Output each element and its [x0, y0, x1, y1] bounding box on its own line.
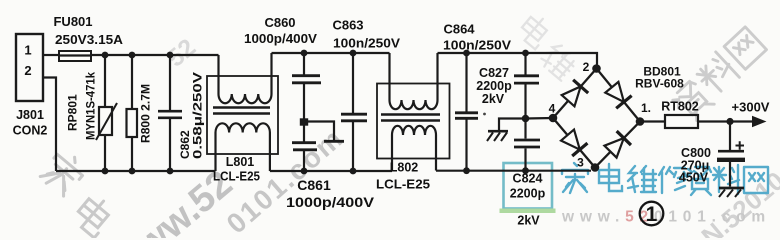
svg-text:www.520101.com: www.520101.com [561, 209, 771, 226]
node junction C863 top [350, 50, 357, 57]
watermark cyan char wei [628, 166, 656, 192]
wire bottom rail L802 to bridge [436, 170, 591, 172]
node junction C861 bottom [301, 168, 308, 175]
wire midpoint to bridge pin 4 [526, 117, 554, 120]
svg-text:450V: 450V [679, 171, 709, 185]
watermark cyan char liao [713, 165, 739, 194]
choke L801 bottom winding [216, 123, 270, 171]
diode D2 arm 2-1 [604, 81, 632, 108]
svg-text:1000p/400V: 1000p/400V [286, 194, 375, 210]
svg-text:3: 3 [577, 156, 584, 170]
choke L801 core [213, 108, 270, 114]
svg-text:100n/250V: 100n/250V [443, 38, 511, 53]
watermark cyan char jia [562, 163, 588, 193]
node junction C824 bottom [522, 167, 529, 174]
wire top rail L802 to bridge [438, 53, 598, 65]
watermark gray char wang topright [724, 27, 766, 69]
svg-text:2200p: 2200p [476, 79, 512, 93]
wire live line after fuse [91, 54, 219, 56]
wire pin1 to fuse [43, 54, 59, 56]
svg-text:LCL-E25: LCL-E25 [213, 170, 260, 184]
svg-text:RT802: RT802 [661, 100, 699, 114]
svg-text:1.: 1. [641, 101, 651, 115]
svg-text:C824: C824 [513, 172, 543, 186]
wire bottom rail L801 to L802 [270, 170, 392, 172]
watermark cyan char zi [687, 167, 711, 195]
svg-text:C864: C864 [443, 22, 475, 37]
svg-text:LCL-E25: LCL-E25 [376, 178, 430, 192]
ink speck [483, 113, 486, 116]
capacitor C861 [292, 143, 317, 171]
arrow +300V output [752, 116, 767, 127]
watermark gray char dian left [72, 193, 116, 238]
ground chassis C800 [719, 188, 744, 197]
svg-text:L802: L802 [390, 161, 419, 175]
watermark cyan char wang [744, 167, 768, 193]
diode D4 arm 3-1 [603, 131, 631, 159]
svg-text:1000p/400V: 1000p/400V [244, 31, 317, 46]
node bridge pin 4 [549, 114, 558, 123]
choke L801 box [207, 76, 278, 154]
watermark gray char liao topright [694, 51, 741, 98]
wire pin2 to neutral [43, 78, 56, 172]
node junction RP801 bottom [102, 168, 109, 175]
node junction RP801 top [102, 52, 109, 59]
svg-text:2: 2 [24, 63, 31, 78]
svg-text:0.58μ/250V: 0.58μ/250V [191, 72, 205, 159]
node junction C827 top [522, 50, 529, 57]
wire stub from node A [304, 122, 334, 141]
svg-text:RBV-608: RBV-608 [635, 77, 684, 91]
fuse FU801 [59, 51, 91, 61]
node junction C862 top [167, 52, 174, 59]
choke L802 core [381, 115, 440, 121]
capacitor C800 [717, 122, 745, 187]
wire bottom neutral rail left [56, 170, 216, 172]
thermistor RT802 [665, 115, 698, 128]
choke L801 top winding [219, 53, 272, 103]
node bridge pin 1 [636, 117, 645, 126]
node junction Y-cap midpoint [522, 115, 530, 123]
watermark gray char zi topright [670, 80, 714, 124]
node bridge pin 3 [591, 163, 600, 172]
watermark gray char dian topmid [517, 12, 554, 49]
svg-text:2kV: 2kV [517, 214, 540, 228]
ground chassis earth [487, 131, 508, 141]
choke L802 bottom winding [392, 126, 436, 171]
svg-text:CON2: CON2 [13, 124, 48, 138]
wire RT802 to +300V [698, 120, 753, 122]
stub plate [324, 140, 344, 143]
node junction C800 top [726, 118, 733, 125]
node junction C862 bottom [167, 168, 174, 175]
diode D1 arm 4-2 [561, 80, 589, 107]
watermark cyan char dian [599, 164, 622, 191]
bridge BD801 arms [553, 69, 640, 168]
capacitor C827 [514, 53, 539, 119]
capacitor C864 [455, 53, 478, 171]
node junction C860 top [301, 50, 308, 57]
svg-text:C860: C860 [264, 15, 295, 30]
watermark teal highlight box C824 [504, 163, 553, 209]
svg-text:MYN1S-471k: MYN1S-471k [84, 72, 98, 140]
varistor RP801 [96, 55, 117, 171]
svg-text:1: 1 [646, 203, 658, 226]
svg-text:J801: J801 [16, 108, 44, 122]
watermark cyan char xiu [659, 167, 686, 193]
svg-text:R800 2.7M: R800 2.7M [139, 84, 153, 143]
node A midpoint C860 C861 [300, 118, 308, 125]
capacitor C860 [292, 53, 321, 142]
connector J801 [16, 34, 43, 101]
svg-text:2200p: 2200p [510, 187, 546, 201]
svg-text:250V3.15A: 250V3.15A [55, 32, 124, 47]
resistor R800 [127, 55, 138, 171]
node junction R800 top [129, 52, 136, 59]
wire top rail L801 to L802 [272, 52, 390, 54]
svg-text:100n/250V: 100n/250V [333, 36, 400, 51]
svg-text:1: 1 [24, 43, 31, 58]
svg-text:+300V: +300V [732, 100, 770, 115]
svg-text:RP801: RP801 [66, 94, 80, 131]
watermark gray char jia left [38, 147, 88, 197]
svg-text:C827: C827 [479, 66, 509, 80]
choke L802 top winding [390, 53, 438, 109]
svg-text:FU801: FU801 [53, 14, 92, 29]
watermark green underline [500, 209, 556, 214]
svg-text:C861: C861 [297, 177, 331, 193]
node junction C864 top [463, 50, 470, 57]
choke L802 box [377, 84, 450, 159]
svg-text:4: 4 [549, 102, 556, 116]
svg-text:2kV: 2kV [482, 92, 505, 106]
svg-text:L801: L801 [226, 155, 255, 169]
svg-text:C863: C863 [332, 18, 363, 33]
capacitor C862 [158, 55, 182, 171]
watermark gray char wei topmid [539, 41, 579, 81]
node junction R800 bottom [129, 168, 136, 175]
wire to chassis earth [499, 119, 526, 131]
node junction C863 bottom [350, 168, 357, 175]
node bridge pin 2 [592, 64, 601, 73]
diode D3 arm 4-3 [560, 129, 588, 156]
svg-text:2: 2 [583, 60, 590, 74]
node junction C864 bottom [463, 167, 470, 174]
circled 1 page marker [640, 202, 664, 226]
capacitor C863 [341, 53, 367, 171]
wire bridge pin1 to RT802 [640, 120, 665, 122]
capacitor C824 [514, 119, 540, 171]
